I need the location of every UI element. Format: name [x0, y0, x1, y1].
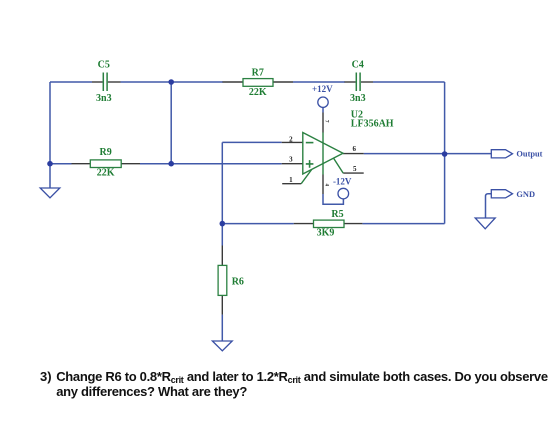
port flag Output — [491, 149, 542, 158]
svg-text:Change R6 to 0.8*Rcrit and lat: Change R6 to 0.8*Rcrit and later to 1.2*… — [56, 369, 548, 385]
svg-text:-12V: -12V — [333, 176, 352, 186]
pin lead op-amp pin 1 — [282, 183, 301, 185]
resistor R9 — [90, 160, 121, 168]
wire left ground stem — [49, 164, 51, 188]
svg-text:R5: R5 — [331, 209, 343, 220]
svg-text:3): 3) — [40, 369, 52, 384]
pin lead op-amp pin 6 — [343, 153, 364, 155]
resistor R5 — [314, 220, 345, 227]
capacitor C5 — [103, 73, 107, 92]
wire top middle segment (C5 to R7) — [121, 81, 224, 83]
wire R5 row right — [362, 223, 444, 225]
wire right vertical rail — [444, 82, 446, 224]
pin lead C4 left — [345, 81, 356, 83]
svg-text:2: 2 — [289, 136, 293, 144]
wire left vertical rail — [49, 82, 51, 164]
junction node B (R9 row left) — [47, 161, 53, 167]
wire top segment (R7 to C4) — [293, 81, 345, 83]
pin lead C5 left — [92, 81, 103, 83]
svg-text:22K: 22K — [249, 87, 267, 98]
ground (right, GND port) — [475, 218, 495, 229]
junction node A (top, C5/R7) — [168, 79, 174, 85]
pin lead R6 bottom — [221, 295, 223, 314]
ground (left) — [40, 188, 60, 198]
svg-text:R6: R6 — [232, 277, 244, 288]
svg-text:22K: 22K — [97, 167, 115, 178]
svg-text:LF356AH: LF356AH — [351, 119, 394, 130]
svg-text:1: 1 — [289, 176, 293, 184]
pin lead R7 right — [273, 81, 293, 83]
power port -12V — [333, 176, 352, 199]
svg-text:5: 5 — [353, 165, 357, 173]
wire feedback vertical — [221, 142, 223, 223]
wire top-right segment (C4 to right rail) — [373, 81, 445, 83]
power port +12V — [312, 84, 333, 107]
svg-text:3: 3 — [289, 156, 293, 164]
pin lead op-amp pin 4 — [322, 175, 324, 195]
op-amp U2 — [301, 132, 343, 183]
wire R9 row to op-amp pin 3 — [140, 163, 282, 165]
wire output row — [364, 153, 492, 155]
svg-text:R9: R9 — [99, 147, 111, 158]
svg-text:6: 6 — [352, 145, 356, 153]
svg-text:C5: C5 — [98, 60, 110, 71]
svg-text:+12V: +12V — [312, 84, 333, 94]
svg-text:C4: C4 — [352, 60, 364, 71]
pin lead op-amp pin 3 — [282, 163, 303, 165]
svg-text:Output: Output — [516, 149, 542, 158]
wire -12V connection — [323, 194, 343, 204]
resistor R6 — [218, 265, 227, 295]
capacitor C4 — [356, 73, 360, 92]
wire vertical between node A and node B — [170, 82, 172, 164]
junction node E (output) — [442, 151, 448, 157]
pin lead op-amp pin 7 — [322, 113, 324, 133]
svg-text:R7: R7 — [252, 68, 264, 79]
svg-text:3n3: 3n3 — [96, 93, 112, 104]
junction node C (R9 row right) — [168, 161, 174, 167]
wire feedback horizontal to pin 2 — [222, 141, 281, 143]
junction node D (R5/R6 feedback) — [220, 221, 226, 227]
pin lead R9 right — [121, 163, 140, 165]
port flag GND — [491, 190, 535, 199]
pin lead op-amp pin 2 — [282, 141, 303, 143]
pin lead R5 left — [294, 223, 314, 225]
wire R6 stem upper — [221, 224, 223, 246]
svg-text:3n3: 3n3 — [350, 93, 366, 104]
wire top-left segment (C5 row) — [50, 81, 92, 83]
pin lead C5 right — [108, 81, 121, 83]
pin lead R7 left — [223, 81, 244, 83]
wire R6 stem lower — [221, 315, 223, 341]
wire R5 row left — [222, 223, 293, 225]
pin lead R9 left — [72, 163, 91, 165]
wire +12V stub — [322, 107, 324, 112]
pin lead C4 right — [361, 81, 373, 83]
wire GND flag to ground — [486, 194, 492, 218]
resistor R7 — [243, 79, 273, 87]
svg-text:any differences? What are they: any differences? What are they? — [56, 384, 247, 399]
pin lead R6 top — [221, 246, 223, 266]
pin lead op-amp pin 5 — [343, 172, 364, 174]
svg-text:GND: GND — [516, 190, 535, 199]
ground (below R6) — [212, 341, 232, 351]
pin lead R5 right — [344, 223, 362, 225]
wire R9 row left stub — [50, 163, 72, 165]
svg-text:3K9: 3K9 — [317, 228, 335, 239]
